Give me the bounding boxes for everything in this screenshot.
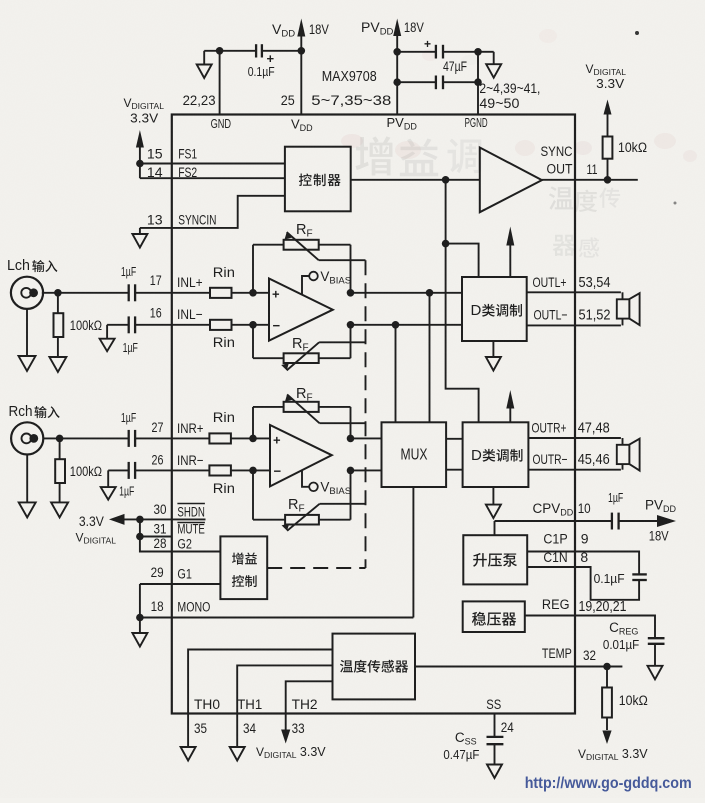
capacitor Css 0.47uF — [487, 736, 504, 738]
resistor 100k (Lch bias) — [57, 293, 59, 313]
ground (VDD cap) — [197, 65, 212, 79]
RCA jack Rch — [11, 422, 43, 454]
wire RF wiper to gain bus — [319, 341, 365, 343]
capacitor 0.1uF (VDD bypass) — [204, 50, 255, 52]
ground (INR- ac couple) — [101, 487, 116, 500]
ground (PVDD caps) — [486, 64, 501, 78]
capacitor 1uF INL+ — [128, 284, 130, 301]
wire TH1 pin 34 — [237, 665, 332, 747]
resistor 10k (SYNC OUT pull-up) — [607, 159, 609, 180]
scan stains (decorative) — [341, 134, 363, 148]
ground (Lch jack) — [19, 356, 36, 371]
block temperature sensor 温度传感器 — [333, 634, 416, 700]
resistor RF (Lch - feedback, variable) — [252, 325, 254, 358]
ground (Lch 100k) — [49, 357, 66, 372]
capacitor 0.1uF (flying) — [632, 573, 647, 575]
ground (SYNCIN) — [132, 234, 147, 248]
resistor Rin (INR+) — [209, 433, 231, 443]
wire RF wiper to gain bus — [320, 422, 366, 424]
ground (G1/MONO) — [132, 633, 147, 647]
wire OUTL- pins 51,52 — [527, 324, 621, 326]
ground (R modulator) — [492, 487, 494, 505]
ground (Rch jack) — [19, 502, 36, 517]
wire G2 pin 28 (tied to 3.3V) — [140, 519, 221, 551]
wire C1P pin 9 to flying cap — [527, 552, 639, 575]
wire Rin to amp — [231, 437, 270, 439]
wire SS pin 24 — [494, 714, 496, 737]
wire MUX mono select from pin 18 — [412, 487, 414, 618]
wire Css to ground — [494, 744, 496, 764]
wire Rin to amp inverting — [231, 469, 270, 471]
wire MUX to R modulator + — [446, 438, 463, 440]
capacitor 1uF (CPVDD) — [611, 513, 613, 530]
wire INL+ pin 17 — [135, 292, 210, 294]
PVDD supply arrow 18V — [393, 19, 401, 37]
node FS1/FS2 tie — [136, 160, 144, 168]
wire TH2 pin 33 to VDIGITAL — [286, 681, 333, 730]
wire INL- to cap — [107, 324, 129, 326]
wire OUTR+ pins 47,48 — [528, 437, 621, 439]
node pull-up junction — [604, 176, 612, 184]
wire CREG to ground — [654, 644, 656, 666]
wire to PVDD arrow — [619, 520, 658, 522]
resistor Rin (INL+) — [210, 288, 232, 298]
paper noise overlay — [0, 0, 1, 1]
wire Lch+ to MUX — [429, 293, 431, 423]
wire MUX to R modulator - — [446, 469, 463, 471]
wire RF wiper to gain bus — [320, 503, 366, 505]
resistor Rin (INL-) — [210, 320, 232, 330]
wire GND branch — [203, 51, 205, 65]
wire GND pin 22,23 — [219, 51, 221, 115]
wire G1 pin 29 (tied to GND) — [140, 583, 221, 585]
block charge pump 升压泵 — [463, 535, 527, 584]
block class-D modulator L — [462, 277, 527, 341]
resistor RF (Rch + feedback, variable) — [252, 407, 254, 439]
node sync branch — [442, 176, 450, 184]
capacitor 1uF INR- — [128, 462, 130, 479]
wire PGND branch to ground — [478, 51, 494, 53]
wire INL- pin 16 — [135, 324, 210, 326]
block: controller 控制器 U-CTRL — [285, 147, 351, 212]
wire Rin to amp inverting — [232, 324, 270, 326]
wire jack shield ground — [26, 455, 28, 503]
ground (L modulator) — [492, 341, 494, 357]
wire controller output to sync buffer — [351, 179, 480, 181]
RCA jack Lch — [11, 277, 43, 309]
ground (TH1) — [230, 747, 245, 761]
wire MUTE pin 31 — [140, 536, 172, 538]
wire sync to class-D modulators (clock) — [445, 180, 447, 244]
wire jack to cap — [44, 437, 129, 439]
wire jack shield ground — [26, 309, 28, 356]
wire TEMP pin 32 — [415, 666, 622, 668]
ground (TH0) — [181, 747, 196, 761]
resistor 10k (TEMP pull-up... pull-down) — [606, 667, 608, 688]
ground (CREG) — [648, 666, 663, 680]
capacitor CREG 0.01uF — [648, 637, 665, 639]
VDD supply arrow 18V — [297, 19, 305, 37]
wire jack to cap — [42, 292, 129, 294]
VBIAS node (Lch) — [309, 272, 318, 281]
wire FS2 pin 14 — [140, 177, 285, 179]
op-amp Lch input amplifier — [269, 279, 333, 341]
wire RF wiper to gain bus — [319, 259, 366, 261]
wire Lch- to MUX — [395, 325, 397, 423]
wire MONO pin 18 (tied to GND) — [139, 584, 141, 633]
wire OUTL+ pins 53,54 — [527, 291, 621, 293]
wire SHDN pin 30 — [140, 518, 206, 520]
wire Lch- rail to modulator — [351, 324, 463, 326]
speaker R — [622, 438, 624, 470]
wire INR- to cap — [108, 469, 129, 471]
wire CPVDD pin 10 — [495, 520, 612, 522]
op-amp sync output buffer — [480, 148, 542, 213]
resistor 100k (Rch bias) — [59, 438, 61, 459]
wire OUTR- pins 45,46 — [528, 469, 621, 471]
wire FS1 pin 15 — [140, 163, 285, 165]
gain-control dashed bus — [365, 260, 367, 568]
block MUX — [382, 422, 447, 487]
wire C1N pin 8 to flying cap — [527, 567, 639, 600]
wire Lch+ rail to modulator — [351, 292, 463, 294]
wire SYNCIN ground stem — [139, 228, 141, 234]
supply arrow (L modulator) — [509, 245, 511, 277]
VBIAS node (Rch) — [309, 483, 318, 492]
block regulator 稳压器 — [463, 601, 525, 632]
wire Rin to amp — [232, 292, 270, 294]
op-amp Rch input amplifier — [270, 425, 332, 486]
IC MAX9708 boundary box — [172, 115, 575, 714]
resistor RF (Lch + feedback, variable) — [252, 245, 254, 293]
wire INR- pin 26 — [135, 469, 209, 471]
wire SYNCIN pin 13 — [140, 196, 285, 228]
wire Rch+ rail to MUX — [351, 437, 382, 439]
wire INR+ pin 27 — [135, 437, 209, 439]
wire charge pump to CPVDD — [494, 521, 496, 535]
resistor Rin (INR-) — [209, 465, 231, 475]
wire PGND pins — [477, 52, 479, 115]
block class-D modulator R — [463, 422, 529, 487]
wire SYNC OUT pin 11 — [542, 179, 638, 181]
ground (Css) — [487, 765, 502, 779]
ground (INL- ac couple) — [100, 339, 115, 352]
block gain control 增益控制 — [220, 536, 267, 599]
resistor RF (Rch - feedback, variable) — [252, 470, 254, 519]
capacitor 47uF (PVDD bulk, polarized) — [397, 51, 435, 53]
capacitor 1uF INL- — [128, 316, 130, 333]
wire TH0 pin 35 — [188, 650, 332, 748]
wire Rch- rail to MUX — [351, 469, 382, 471]
ground (Rch 100k) — [51, 502, 68, 517]
capacitor 1uF INR+ — [128, 430, 130, 447]
supply arrow (R modulator) — [509, 409, 511, 423]
wire REG pins 19,20,21 — [525, 616, 655, 638]
capacitor (PVDD bypass) — [397, 81, 435, 83]
speaker L — [622, 292, 624, 325]
